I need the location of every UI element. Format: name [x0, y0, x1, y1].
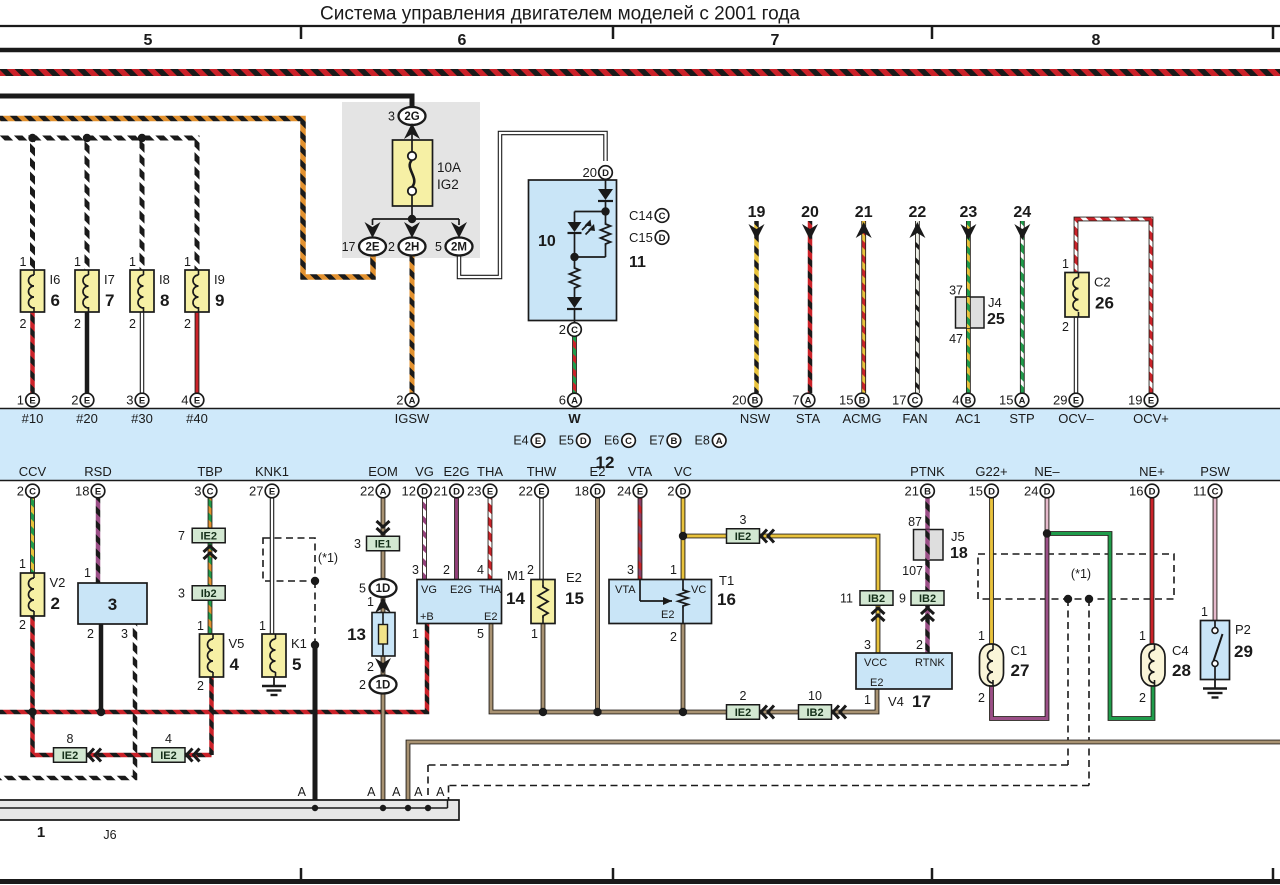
svg-text:1: 1 — [20, 255, 27, 269]
main ground bus black/red — [0, 624, 427, 713]
svg-text:IE2: IE2 — [62, 750, 79, 762]
svg-text:VCC: VCC — [864, 657, 887, 669]
svg-text:E4: E4 — [513, 434, 528, 448]
svg-text:5: 5 — [477, 627, 484, 641]
svg-text:D: D — [421, 486, 428, 497]
shield ground wire black — [313, 645, 318, 808]
svg-text:6: 6 — [51, 291, 60, 310]
svg-text:2: 2 — [129, 317, 136, 331]
svg-text:10: 10 — [538, 233, 556, 250]
ECU pins bottom row — [26, 484, 40, 498]
svg-text:87: 87 — [908, 515, 922, 529]
svg-text:E: E — [29, 395, 35, 406]
svg-text:10: 10 — [808, 689, 822, 703]
svg-text:D: D — [594, 486, 601, 497]
svg-text:4: 4 — [230, 655, 240, 674]
wire: black/white ignition coil bus — [0, 138, 197, 270]
svg-text:2: 2 — [87, 627, 94, 641]
wire NE- branch green to C4 — [1047, 534, 1153, 719]
svg-text:24: 24 — [1024, 484, 1038, 499]
svg-text:W: W — [568, 411, 581, 426]
LED — [568, 222, 582, 232]
svg-text:3: 3 — [121, 627, 128, 641]
svg-text:3: 3 — [388, 109, 395, 123]
svg-text:2: 2 — [74, 317, 81, 331]
svg-text:3: 3 — [194, 484, 201, 499]
wire 20 STA black/red — [808, 221, 813, 393]
svg-text:20: 20 — [732, 393, 746, 408]
connector IE2 pin7 — [192, 528, 225, 543]
svg-text:ACMG: ACMG — [843, 411, 882, 426]
svg-text:2: 2 — [978, 691, 985, 705]
shield dashed box (*1) right — [978, 554, 1174, 599]
wire VG white/purple — [422, 498, 427, 580]
temp sensor E2 15 — [531, 580, 555, 624]
svg-text:4: 4 — [952, 393, 959, 408]
svg-text:3: 3 — [864, 638, 871, 652]
svg-text:8: 8 — [160, 291, 169, 310]
svg-text:23: 23 — [467, 484, 481, 499]
svg-text:VTA: VTA — [615, 584, 636, 596]
svg-text:2M: 2M — [451, 242, 467, 254]
svg-text:E: E — [1073, 395, 1079, 406]
svg-text:2: 2 — [1139, 691, 1146, 705]
svg-text:E2: E2 — [870, 677, 883, 689]
fuse output branch — [373, 218, 460, 220]
oil control valve C2 26 — [1065, 273, 1089, 318]
svg-text:3: 3 — [126, 393, 133, 408]
svg-text:C: C — [659, 211, 666, 222]
wire box16 E2 brown — [681, 624, 686, 713]
svg-text:D: D — [580, 436, 587, 447]
wire PTNK black/purple — [925, 498, 930, 653]
svg-text:19: 19 — [748, 204, 766, 221]
vapor pressure sensor V4 17 — [856, 653, 952, 689]
arrow to 2M — [451, 222, 467, 238]
svg-text:P2: P2 — [1235, 622, 1251, 637]
svg-text:2: 2 — [367, 660, 374, 674]
svg-text:VC: VC — [674, 464, 692, 479]
svg-text:20: 20 — [583, 165, 597, 180]
svg-text:NSW: NSW — [740, 411, 771, 426]
resistor right branch — [605, 212, 607, 223]
junction block (grey) with fuse IG2 — [342, 102, 480, 258]
connector 2H — [399, 238, 426, 256]
svg-text:I7: I7 — [104, 272, 115, 287]
svg-text:1: 1 — [864, 693, 871, 707]
svg-text:1: 1 — [978, 629, 985, 643]
knock sensor K1 5 — [262, 634, 286, 677]
svg-text:1: 1 — [19, 557, 26, 571]
svg-text:IG2: IG2 — [437, 177, 459, 192]
svg-text:NE–: NE– — [1034, 464, 1060, 479]
svg-text:IE1: IE1 — [375, 539, 392, 551]
svg-text:27: 27 — [1011, 661, 1030, 680]
svg-text:J4: J4 — [988, 295, 1002, 310]
svg-text:(*1): (*1) — [318, 551, 338, 565]
ground below K1 — [273, 677, 275, 686]
wire: black/orange feed to connector 2E — [0, 119, 373, 278]
svg-text:E: E — [487, 486, 493, 497]
ignition coil I8 — [130, 270, 154, 312]
svg-text:A: A — [571, 395, 578, 406]
wire PSW pink — [1213, 498, 1218, 621]
svg-text:A: A — [414, 785, 423, 799]
svg-text:E2: E2 — [566, 570, 582, 585]
connector IB2 pin10 on ground bus — [799, 705, 832, 720]
wire sensor15 down brown — [541, 624, 546, 713]
svg-text:22: 22 — [519, 484, 533, 499]
svg-text:2: 2 — [20, 317, 27, 331]
connector J4 25 — [956, 297, 985, 328]
shield dashed drop — [314, 581, 316, 645]
wire OCV- white — [1074, 317, 1079, 393]
svg-text:1: 1 — [367, 595, 374, 609]
svg-text:15: 15 — [999, 393, 1013, 408]
svg-text:7: 7 — [105, 291, 114, 310]
wire C1 return purple — [992, 534, 1048, 719]
svg-text:I8: I8 — [159, 272, 170, 287]
svg-text:KNK1: KNK1 — [255, 464, 289, 479]
svg-text:B: B — [752, 395, 759, 406]
svg-text:2: 2 — [197, 679, 204, 693]
svg-text:Система управления двигателем: Система управления двигателем моделей с … — [320, 4, 800, 25]
wire 21 ACMG red/yellow — [861, 221, 866, 393]
svg-text:20: 20 — [801, 204, 819, 221]
arrow into 2G — [404, 123, 420, 139]
svg-text:47: 47 — [949, 332, 963, 346]
svg-text:2: 2 — [443, 563, 450, 577]
connector IE2 pin3 (VC branch) — [727, 529, 760, 544]
svg-text:5: 5 — [292, 655, 301, 674]
svg-text:K1: K1 — [291, 636, 307, 651]
svg-text:6: 6 — [559, 393, 566, 408]
wire G22+ yellow — [989, 498, 994, 644]
svg-text:3: 3 — [412, 563, 419, 577]
svg-text:PTNK: PTNK — [910, 464, 945, 479]
svg-text:OCV–: OCV– — [1058, 411, 1094, 426]
svg-text:STA: STA — [796, 411, 821, 426]
svg-text:17: 17 — [912, 692, 931, 711]
svg-text:NE+: NE+ — [1139, 464, 1165, 479]
arrow down out of 13 — [375, 658, 391, 674]
svg-text:7: 7 — [178, 529, 185, 543]
svg-text:27: 27 — [249, 484, 263, 499]
svg-text:16: 16 — [1129, 484, 1143, 499]
connector IE2 pin4 — [152, 748, 185, 763]
solenoid V2 2 — [21, 573, 45, 616]
svg-text:28: 28 — [1172, 661, 1191, 680]
svg-text:1: 1 — [531, 627, 538, 641]
svg-text:1: 1 — [412, 627, 419, 641]
svg-text:M1: M1 — [507, 568, 525, 583]
park/neutral switch P2 29 — [1201, 621, 1230, 680]
unit 3 (EGR) — [78, 583, 147, 624]
wire 22 FAN white/black — [915, 221, 920, 393]
connector 5 1D — [370, 579, 397, 597]
shield dashed line 1 — [1067, 599, 1069, 765]
svg-text:STP: STP — [1009, 411, 1034, 426]
svg-text:18: 18 — [575, 484, 589, 499]
svg-text:3: 3 — [178, 587, 185, 601]
svg-text:C: C — [29, 486, 36, 497]
svg-text:23: 23 — [960, 204, 978, 221]
wire CCV green/yellow — [30, 498, 35, 573]
connector IE1 pin3 — [367, 536, 400, 551]
wire: coil I8 feed black/white — [140, 138, 145, 270]
svg-text:A: A — [1019, 395, 1026, 406]
svg-text:A: A — [409, 395, 416, 406]
svg-text:3: 3 — [108, 595, 117, 614]
ground below P2 — [1214, 680, 1216, 689]
wire 23 AC1 green/yellow — [966, 221, 971, 393]
svg-text:I6: I6 — [50, 272, 61, 287]
camshaft sensor C1 27 — [980, 644, 1004, 686]
svg-text:C: C — [571, 325, 578, 336]
svg-text:PSW: PSW — [1200, 464, 1230, 479]
svg-text:C: C — [625, 436, 632, 447]
svg-text:IE2: IE2 — [200, 531, 217, 543]
svg-text:D: D — [659, 233, 666, 244]
svg-text:CCV: CCV — [19, 464, 47, 479]
svg-text:D: D — [453, 486, 460, 497]
svg-text:D: D — [988, 486, 995, 497]
svg-text:37: 37 — [949, 284, 963, 298]
svg-text:A: A — [436, 785, 445, 799]
resistor lower — [574, 257, 576, 266]
connector IE2 pin2 on ground bus — [727, 705, 760, 720]
svg-text:Ib2: Ib2 — [201, 588, 217, 600]
svg-text:FAN: FAN — [902, 411, 927, 426]
svg-text:1D: 1D — [376, 680, 391, 692]
svg-text:A: A — [805, 395, 812, 406]
svg-text:21: 21 — [434, 484, 448, 499]
svg-text:IGSW: IGSW — [395, 411, 430, 426]
filter 13 — [372, 613, 395, 657]
svg-text:E: E — [95, 486, 101, 497]
svg-text:E: E — [139, 395, 145, 406]
svg-text:E: E — [538, 486, 544, 497]
svg-text:E: E — [535, 436, 541, 447]
svg-text:1D: 1D — [376, 583, 391, 595]
svg-text:A: A — [392, 785, 401, 799]
wire NE+ red — [1150, 498, 1155, 644]
wire 24 STP green/white — [1020, 221, 1025, 393]
wire E2G purple — [454, 498, 459, 580]
svg-text:D: D — [602, 168, 609, 179]
svg-text:21: 21 — [855, 204, 873, 221]
svg-text:A: A — [298, 785, 307, 799]
svg-text:D: D — [680, 486, 687, 497]
wire unit3 pin2 black — [99, 624, 104, 712]
svg-text:11: 11 — [1193, 484, 1207, 499]
svg-text:D: D — [1149, 486, 1156, 497]
svg-text:E6: E6 — [604, 434, 619, 448]
svg-text:A: A — [367, 785, 376, 799]
svg-text:B: B — [859, 395, 866, 406]
svg-text:C1: C1 — [1011, 643, 1028, 658]
svg-text:11: 11 — [840, 592, 853, 606]
svg-text:12: 12 — [402, 484, 416, 499]
svg-text:2: 2 — [71, 393, 78, 408]
wire: I8 to pin #30 white — [140, 312, 145, 393]
ECU connector band 12 — [0, 409, 1280, 481]
svg-text:+B: +B — [420, 611, 434, 623]
svg-text:5: 5 — [144, 32, 153, 49]
wire: I9 to pin #40 red — [195, 312, 200, 393]
svg-text:#40: #40 — [186, 411, 208, 426]
wire E2 brown — [595, 498, 600, 712]
svg-text:E: E — [269, 486, 275, 497]
svg-text:1: 1 — [17, 393, 24, 408]
svg-text:E: E — [1148, 395, 1154, 406]
svg-text:19: 19 — [1128, 393, 1142, 408]
svg-text:14: 14 — [506, 589, 525, 608]
svg-text:C15: C15 — [629, 230, 653, 245]
svg-text:17: 17 — [892, 393, 906, 408]
connector IB2 pin9 — [911, 591, 944, 606]
svg-text:2H: 2H — [405, 242, 420, 254]
svg-text:A: A — [716, 436, 723, 447]
svg-text:E2G: E2G — [443, 464, 469, 479]
svg-text:2E: 2E — [365, 242, 379, 254]
crankshaft sensor C4 28 — [1141, 644, 1165, 686]
wire THA red/white — [488, 498, 493, 580]
pin 20 D — [599, 166, 613, 180]
svg-text:26: 26 — [1095, 294, 1114, 313]
svg-text:4: 4 — [181, 393, 188, 408]
pin 2 C — [568, 323, 582, 337]
wire V5 down black/red — [209, 677, 214, 755]
svg-text:5: 5 — [435, 240, 442, 254]
svg-text:7: 7 — [792, 393, 799, 408]
svg-text:2: 2 — [670, 630, 677, 644]
wire: black feed to fuse 2G — [0, 96, 412, 107]
top ruler line — [0, 25, 1280, 27]
svg-text:1: 1 — [259, 619, 266, 633]
svg-text:1: 1 — [1139, 629, 1146, 643]
solenoid V5 4 — [200, 634, 224, 677]
EOM chevrons — [377, 521, 390, 527]
fuse 10A IG2 — [393, 140, 433, 206]
svg-text:G22+: G22+ — [975, 464, 1007, 479]
connector J5 18 — [914, 530, 944, 561]
connector 2G — [399, 107, 426, 125]
arrow to 2H — [404, 222, 420, 238]
svg-text:VTA: VTA — [628, 464, 653, 479]
svg-text:E7: E7 — [649, 434, 664, 448]
svg-text:24: 24 — [617, 484, 631, 499]
svg-text:1: 1 — [1201, 605, 1208, 619]
wire V2 to ground bus black/red — [30, 616, 35, 712]
svg-text:THA: THA — [479, 584, 502, 596]
svg-text:E8: E8 — [695, 434, 710, 448]
wire: main power bus black/red (top) — [0, 69, 1280, 76]
wire: I6 to pin #10 black/red — [30, 312, 35, 393]
svg-text:2: 2 — [51, 594, 60, 613]
svg-text:AC1: AC1 — [955, 411, 980, 426]
svg-text:B: B — [670, 436, 677, 447]
svg-text:3: 3 — [354, 537, 361, 551]
svg-text:EOM: EOM — [368, 464, 398, 479]
svg-text:#10: #10 — [22, 411, 44, 426]
ignition coil I7 — [75, 270, 99, 312]
svg-text:C: C — [1212, 486, 1219, 497]
wire OCV+ red/white loop from C2 — [1076, 219, 1151, 393]
svg-text:RTNK: RTNK — [915, 657, 945, 669]
svg-text:E: E — [637, 486, 643, 497]
svg-text:3: 3 — [627, 563, 634, 577]
throttle sensor T1 16 — [609, 580, 712, 624]
svg-text:IE2: IE2 — [735, 707, 752, 719]
svg-text:J5: J5 — [951, 529, 965, 544]
svg-text:1: 1 — [129, 255, 136, 269]
svg-text:T1: T1 — [719, 573, 734, 588]
wire: coil I6 feed black/white — [30, 138, 35, 270]
svg-text:24: 24 — [1013, 204, 1031, 221]
svg-text:E2G: E2G — [450, 584, 472, 596]
wire VTA maroon/red — [638, 498, 643, 580]
svg-text:3: 3 — [740, 513, 747, 527]
svg-text:IE2: IE2 — [735, 531, 752, 543]
svg-text:1: 1 — [670, 563, 677, 577]
svg-text:2: 2 — [667, 484, 674, 499]
svg-text:E2: E2 — [484, 611, 497, 623]
svg-text:2: 2 — [559, 322, 566, 337]
svg-text:1: 1 — [37, 824, 45, 841]
ignition coil I9 — [185, 270, 209, 312]
svg-text:TBP: TBP — [197, 464, 222, 479]
junction dots — [28, 134, 36, 142]
wire VC yellow — [681, 498, 686, 580]
svg-text:E2: E2 — [590, 464, 606, 479]
svg-text:1: 1 — [184, 255, 191, 269]
svg-text:C4: C4 — [1172, 643, 1189, 658]
ground plate J6 — [0, 800, 459, 820]
svg-text:E5: E5 — [559, 434, 574, 448]
svg-text:9: 9 — [215, 291, 224, 310]
svg-text:E: E — [84, 395, 90, 406]
svg-text:2: 2 — [396, 393, 403, 408]
svg-text:29: 29 — [1234, 642, 1253, 661]
svg-text:16: 16 — [717, 590, 736, 609]
svg-text:OCV+: OCV+ — [1133, 411, 1169, 426]
wire 19 NSW black/yellow — [754, 221, 759, 393]
arrow to 2E — [365, 222, 381, 238]
svg-text:IB2: IB2 — [868, 593, 885, 605]
svg-text:2G: 2G — [404, 111, 419, 123]
svg-text:C14: C14 — [629, 208, 653, 223]
svg-text:2: 2 — [527, 563, 534, 577]
arrow up into 13 — [375, 597, 391, 613]
svg-text:18: 18 — [75, 484, 89, 499]
svg-text:107: 107 — [902, 564, 923, 578]
wire: coil I7 feed black/white — [85, 138, 90, 270]
connector 2M — [446, 238, 473, 256]
svg-text:2: 2 — [740, 689, 747, 703]
ECU pins top row — [26, 393, 40, 407]
connector IE2 pin8 — [54, 748, 87, 763]
svg-text:B: B — [965, 395, 972, 406]
svg-text:I9: I9 — [214, 272, 225, 287]
svg-text:8: 8 — [67, 732, 74, 746]
svg-text:IB2: IB2 — [919, 593, 936, 605]
svg-text:15: 15 — [565, 589, 584, 608]
svg-text:18: 18 — [950, 545, 968, 562]
ground chain IE2 8/4 black/red — [33, 712, 212, 755]
wire NE- pink — [1045, 498, 1050, 534]
connector IB2 pin11 — [860, 591, 893, 606]
